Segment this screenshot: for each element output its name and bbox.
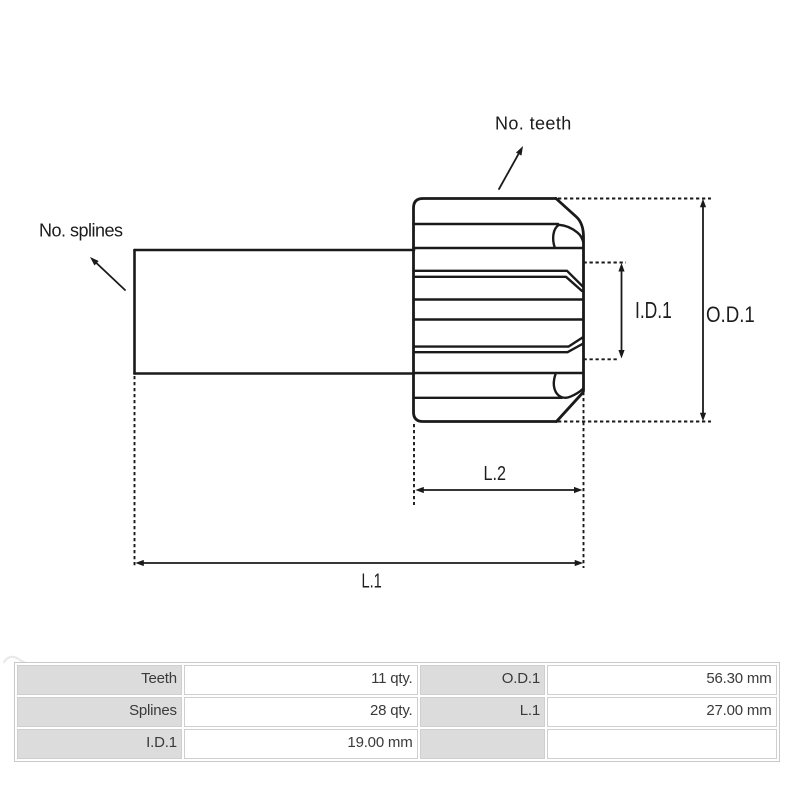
shaft xyxy=(135,250,415,374)
gear tooth lines xyxy=(414,224,584,398)
bottom O.D. extension xyxy=(558,421,711,423)
gear-left vertical (L.2) xyxy=(413,424,415,505)
tooth arc top xyxy=(553,225,583,248)
line 8 xyxy=(414,372,583,374)
svg-text:L.1: L.1 xyxy=(361,569,381,592)
line 3 xyxy=(414,247,584,249)
watermark trace xyxy=(4,657,32,664)
spline wedge upper xyxy=(414,271,584,287)
gear-right vertical xyxy=(583,392,585,568)
spec table xyxy=(14,662,780,762)
gear body outline xyxy=(414,199,584,422)
svg-text:L.2: L.2 xyxy=(483,462,506,484)
tooth arc bottom xyxy=(554,374,583,398)
left vertical (L.1) xyxy=(134,376,136,568)
arrow: No. teeth xyxy=(499,155,518,189)
line 5 xyxy=(414,298,584,300)
svg-text:No. splines: No. splines xyxy=(39,221,123,241)
line 2 xyxy=(414,223,559,225)
I.D.1 bottom extension xyxy=(584,358,619,360)
svg-text:No. teeth: No. teeth xyxy=(495,114,572,134)
line 6 xyxy=(414,318,584,320)
dimension L.1 horizontal arrow xyxy=(141,562,577,564)
arrow: No. splines xyxy=(97,263,125,290)
dimension I.D.1 vertical arrow xyxy=(621,269,623,352)
svg-text:I.D.1: I.D.1 xyxy=(635,299,672,324)
dimension O.D.1 vertical arrow xyxy=(702,205,704,415)
I.D.1 top extension xyxy=(584,262,627,264)
dashed extension lines xyxy=(135,199,712,569)
line 9 xyxy=(414,397,563,399)
spline wedge lower xyxy=(414,337,584,347)
dimension L.2 horizontal arrow xyxy=(421,489,577,491)
top O.D. extension xyxy=(558,198,711,200)
svg-text:O.D.1: O.D.1 xyxy=(706,304,755,328)
